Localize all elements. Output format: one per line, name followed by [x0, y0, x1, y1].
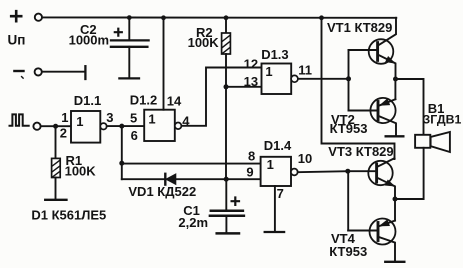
gate D1.1 — [71, 111, 107, 143]
wire output node to speaker — [396, 79, 424, 135]
svg-text:1: 1 — [61, 110, 68, 125]
svg-text:13: 13 — [244, 74, 258, 89]
svg-text:2,2m: 2,2m — [178, 215, 208, 230]
diode VD1 — [165, 174, 176, 185]
wire input to D1.1 — [41, 125, 71, 127]
svg-text:Uп: Uп — [8, 33, 26, 48]
svg-text:VT3 КТ829: VT3 КТ829 — [328, 144, 393, 159]
wire node down to C1 — [225, 179, 227, 210]
junction R2 / pin13 node — [224, 84, 229, 89]
positive supply terminal — [11, 11, 42, 21]
junction VD1 / C1 node — [224, 177, 229, 182]
capacitor C1 — [210, 198, 244, 234]
svg-text:3: 3 — [106, 110, 113, 125]
svg-text:12: 12 — [244, 56, 258, 71]
svg-text:1: 1 — [267, 157, 274, 172]
junction pin8 branch — [119, 161, 124, 166]
junction R2 to rail — [224, 15, 229, 20]
wire R2 node down to VD1 node — [225, 87, 227, 179]
wire pin 14 to rail — [163, 18, 165, 110]
svg-text:2: 2 — [60, 125, 67, 140]
negative rail end bar — [84, 66, 86, 79]
transistor VT1 — [349, 18, 397, 79]
wire top supply rail — [42, 16, 396, 18]
junction pin14 to rail — [161, 15, 166, 20]
wire to D1.4 pin 8 — [122, 163, 261, 165]
gate D1.2 — [144, 110, 181, 141]
VT2 collector end bar (minus) — [386, 135, 404, 137]
junction VT3 collector feed to rail — [319, 15, 324, 20]
resistor R1 — [52, 126, 61, 199]
svg-text:D1 К561ЛЕ5: D1 К561ЛЕ5 — [31, 208, 106, 223]
svg-text:1: 1 — [148, 112, 155, 127]
junction VT1 emitter output node — [393, 77, 398, 82]
svg-text:D1.2: D1.2 — [130, 92, 157, 107]
capacitor C2 — [111, 18, 149, 79]
svg-text:100K: 100K — [65, 164, 97, 179]
svg-text:D1.3: D1.3 — [261, 47, 288, 62]
wire D1.4 output to VT3/VT4 bases — [298, 171, 348, 172]
junction VT3 base node / pin 10 — [345, 169, 350, 174]
wire D1.2 output up to D1.3 pin 12 — [181, 68, 261, 126]
wire R2 node to D1.3 pin 13 — [226, 86, 262, 88]
svg-text:1: 1 — [76, 114, 83, 129]
junction node A (D1.1 out / feedback) — [119, 124, 124, 129]
junction base node / pin 11 — [346, 76, 351, 81]
R1 ground-side end bar — [45, 199, 66, 201]
svg-text:7: 7 — [277, 186, 284, 201]
svg-text:VT1 КТ829: VT1 КТ829 — [327, 20, 392, 35]
svg-text:D1.1: D1.1 — [74, 93, 101, 108]
wire D1.1 output to D1.2 input — [107, 125, 144, 127]
wire feedback node down — [121, 126, 123, 179]
svg-text:100K: 100K — [188, 35, 220, 50]
transistor VT4 — [348, 199, 395, 261]
svg-text:VD1 КД522: VD1 КД522 — [128, 184, 196, 199]
svg-text:5: 5 — [130, 110, 137, 125]
transistor VT2 — [349, 79, 397, 135]
svg-text:11: 11 — [298, 63, 312, 78]
resistor R2 — [222, 18, 231, 87]
svg-text:ЗГДВ1: ЗГДВ1 — [423, 113, 462, 127]
wire through VD1 to D1.4 pin 9 — [122, 178, 261, 180]
junction input node / R1 — [53, 124, 58, 129]
svg-text:9: 9 — [246, 164, 253, 179]
gate D1.4 — [261, 157, 298, 186]
svg-text:14: 14 — [167, 94, 182, 109]
wire rail to VT3 collector — [322, 18, 395, 159]
svg-text:10: 10 — [298, 151, 312, 166]
input terminal — [33, 123, 40, 130]
wire VT3/VT4 base node — [347, 171, 349, 230]
svg-text:КТ953: КТ953 — [329, 244, 367, 259]
VT4 collector end bar (minus) — [385, 261, 404, 263]
input square-wave symbol — [10, 114, 29, 125]
svg-text:КТ953: КТ953 — [330, 121, 368, 136]
svg-text:D1.4: D1.4 — [264, 138, 292, 153]
pin 7 end bar — [265, 231, 284, 233]
wire D1.4 pin 7 down — [274, 186, 276, 231]
wire speaker to lower output node — [395, 148, 424, 199]
svg-text:1: 1 — [265, 64, 272, 79]
svg-text:8: 8 — [248, 149, 255, 164]
transistor VT3 — [348, 158, 395, 199]
svg-text:6: 6 — [131, 128, 138, 143]
junction VT3 emitter output node — [393, 197, 398, 202]
wire negative rail stub — [42, 71, 85, 73]
junction C2 to rail — [127, 15, 132, 20]
speaker B1 — [415, 132, 450, 152]
gate D1.3 — [262, 64, 298, 95]
svg-text:1000m: 1000m — [69, 32, 109, 47]
wire VT1/VT2 base node — [348, 50, 350, 111]
negative supply terminal — [14, 68, 41, 78]
wire D1.3 output to VT1/VT2 bases — [298, 78, 349, 80]
